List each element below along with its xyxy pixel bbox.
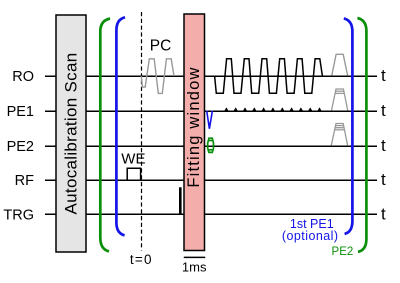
wire: RO axis line xyxy=(45,75,377,77)
1ms scale bar xyxy=(184,256,205,258)
svg-text:Autocalibration Scan: Autocalibration Scan xyxy=(62,53,81,215)
left blue bracket (1st PE1 span) xyxy=(116,17,125,235)
svg-text:t=0: t=0 xyxy=(130,252,153,267)
svg-text:t: t xyxy=(381,101,386,120)
svg-text:RO: RO xyxy=(12,69,34,85)
svg-text:PE2: PE2 xyxy=(332,246,354,258)
svg-text:RF: RF xyxy=(15,173,34,189)
PE1 blip train xyxy=(224,107,322,111)
svg-text:t: t xyxy=(381,136,386,155)
gray RO trapezoid (next readout) xyxy=(332,54,348,75)
wire: PE1 axis line xyxy=(45,110,377,112)
wire: PE2 axis line xyxy=(45,145,377,147)
gray PE1 trapezoid stack xyxy=(332,89,348,110)
readout gradient train on RO xyxy=(215,59,323,94)
WE pulse on RF xyxy=(127,168,140,180)
svg-text:t: t xyxy=(381,205,386,224)
t=0 dashed line xyxy=(141,12,143,251)
svg-text:(optional): (optional) xyxy=(282,229,339,243)
PC phase-correction waveform on RO xyxy=(141,59,174,94)
svg-text:TRG: TRG xyxy=(3,208,34,224)
left green bracket (PE2 span) xyxy=(100,19,110,252)
svg-text:t: t xyxy=(381,170,386,189)
right blue bracket (1st PE1) xyxy=(344,18,353,234)
trigger pulse on TRG xyxy=(179,187,182,214)
gray PE2 trapezoid stack xyxy=(331,124,347,146)
fitting window box xyxy=(184,14,205,251)
svg-text:1ms: 1ms xyxy=(182,259,207,274)
wire: RF axis line xyxy=(45,179,377,181)
green PE2 blip (bipolar on PE2 line) xyxy=(208,138,214,152)
blue 1st PE1 blip (below PE1 line) xyxy=(207,111,213,129)
wire: TRG axis line xyxy=(45,213,377,215)
autocalibration scan box xyxy=(56,15,86,252)
right green bracket (PE2) xyxy=(357,18,366,252)
svg-text:PE1: PE1 xyxy=(7,104,34,120)
svg-text:Fitting window: Fitting window xyxy=(185,66,203,187)
svg-text:t: t xyxy=(381,66,386,85)
svg-text:PC: PC xyxy=(150,38,172,55)
svg-text:PE2: PE2 xyxy=(7,139,34,155)
